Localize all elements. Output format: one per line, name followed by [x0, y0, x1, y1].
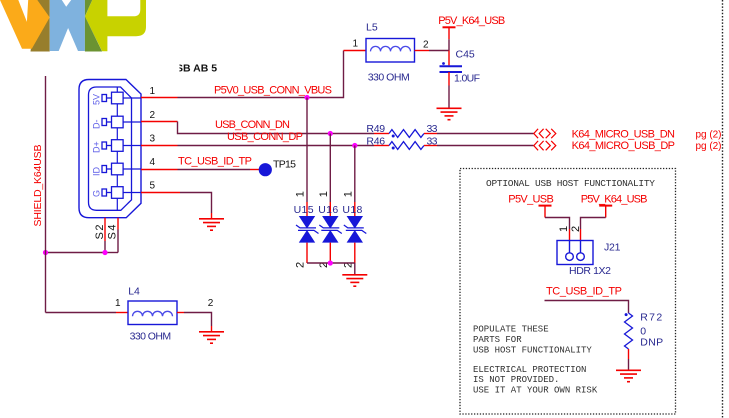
wire DP drop to U18 [354, 146, 356, 203]
header J21 [557, 241, 593, 265]
svg-text:U16: U16 [318, 204, 338, 216]
connector contact chain wire [116, 87, 118, 210]
svg-text:USE IT AT YOUR OWN RISK: USE IT AT YOUR OWN RISK [473, 386, 598, 396]
wire DN to off-page [437, 133, 534, 135]
svg-text:33: 33 [427, 136, 438, 148]
U18 pin 1 stub [354, 202, 356, 216]
capacitor C45 pin 2 [448, 72, 450, 86]
ground stub pin5 [211, 213, 213, 218]
svg-text:5V: 5V [91, 94, 101, 105]
capacitor C45 pin 1 [448, 51, 450, 66]
contact pin 3 (D+) [102, 140, 141, 152]
svg-text:TC_USB_ID_TP: TC_USB_ID_TP [178, 156, 252, 168]
ground under TVS [342, 275, 367, 286]
test point TP15 [259, 163, 272, 176]
TVS diode U16 [319, 216, 342, 243]
pin3 wire (DP pin) [141, 145, 178, 147]
svg-text:K64_MICRO_USB_DN: K64_MICRO_USB_DN [572, 128, 675, 140]
svg-text:5: 5 [150, 181, 156, 192]
wire TC_USB_ID_TP [178, 169, 251, 171]
wire shield S2/S4 to junction [46, 230, 119, 253]
svg-text:G: G [91, 190, 101, 197]
power symbol P5V_K64_USB (box) [581, 193, 648, 217]
U18 pin 2 stub [354, 243, 356, 263]
svg-text:J21: J21 [604, 242, 621, 254]
svg-text:C45: C45 [456, 49, 475, 61]
wire L5 pin2 to C45 node [429, 50, 449, 52]
svg-text:1.0UF: 1.0UF [454, 73, 480, 85]
wire VBUS [178, 51, 344, 98]
svg-text:ID: ID [91, 166, 101, 176]
junction DP [352, 143, 357, 148]
resistor R49 [374, 130, 437, 138]
wire USB_CONN_DP [178, 145, 375, 147]
resistor R46 [374, 142, 437, 150]
connector title text USB AB 5 (partially clipped) [172, 60, 217, 75]
pin4 wire (ID pin) [141, 169, 178, 171]
U16 pin 2 stub [329, 243, 331, 263]
U15 pin 1 stub [306, 202, 308, 216]
J21 pin1 stub [569, 229, 571, 241]
off-page connector DN [534, 129, 556, 138]
contact pin 4 (ID) [102, 163, 141, 175]
power symbol P5V_USB [508, 193, 554, 217]
junction TVS common [328, 260, 333, 265]
svg-text:1: 1 [318, 191, 330, 197]
wire R72 to ground [628, 359, 630, 370]
svg-text:1: 1 [150, 86, 156, 97]
svg-text:330 OHM: 330 OHM [130, 331, 172, 343]
svg-text:3: 3 [150, 134, 156, 145]
svg-text:OPTIONAL USB HOST FUNCTIONALIT: OPTIONAL USB HOST FUNCTIONALITY [486, 178, 655, 189]
optional box dotted frame [460, 169, 676, 415]
svg-text:L5: L5 [366, 22, 378, 34]
shield pin S2 [94, 218, 106, 241]
ground under pin5 [199, 219, 224, 230]
svg-text:SHIELD_K64USB: SHIELD_K64USB [32, 145, 44, 227]
wire power to node [448, 39, 450, 50]
power symbol P5V_K64_USB [438, 15, 505, 39]
svg-text:2: 2 [295, 262, 307, 268]
svg-text:2: 2 [208, 298, 214, 309]
svg-text:1: 1 [343, 191, 355, 197]
wire DN drop to U16 [329, 134, 331, 203]
USB connector J outer shell [79, 80, 141, 218]
junction shield [102, 250, 107, 255]
svg-text:PARTS FOR: PARTS FOR [473, 335, 522, 345]
svg-text:P5V_K64_USB: P5V_K64_USB [438, 15, 505, 27]
junction DN [328, 131, 333, 136]
svg-text:HDR 1X2: HDR 1X2 [569, 265, 611, 277]
svg-text:33: 33 [427, 123, 438, 135]
svg-text:R46: R46 [366, 136, 385, 148]
R72 pin 2 stub [628, 349, 630, 359]
USB connector inner shell [89, 87, 132, 210]
inductor L5 [344, 39, 430, 63]
ground under R72 [616, 370, 641, 381]
svg-text:POPULATE THESE: POPULATE THESE [473, 325, 549, 335]
svg-text:D-: D- [91, 120, 101, 130]
pin5 wire (GND pin) [141, 192, 180, 194]
svg-text:D+: D+ [91, 141, 101, 153]
wire pin5 to ground [180, 193, 212, 214]
wire L4 pin2 to ground [184, 313, 212, 327]
svg-text:P5V_K64_USB: P5V_K64_USB [581, 193, 648, 205]
svg-text:P5V_USB: P5V_USB [508, 193, 554, 205]
svg-text:1: 1 [558, 226, 570, 232]
contact pin 2 (D-) [102, 116, 141, 128]
U16 pin 1 stub [329, 202, 331, 216]
U15 pin 2 stub [306, 243, 308, 263]
svg-text:1: 1 [295, 191, 307, 197]
wire P5V_K64_USB to J21 pin2 [581, 218, 606, 230]
off-page connector DP [534, 141, 556, 150]
TVS diode U18 [344, 216, 367, 243]
svg-text:1: 1 [115, 298, 121, 309]
svg-text:330 OHM: 330 OHM [368, 72, 410, 84]
svg-text:4: 4 [150, 157, 156, 168]
svg-text:U18: U18 [342, 204, 362, 216]
sheet border dotted line [722, 0, 724, 418]
inductor L4 [116, 301, 184, 325]
svg-text:USB HOST FUNCTIONALITY: USB HOST FUNCTIONALITY [473, 346, 592, 356]
TVS diode U15 [296, 216, 319, 243]
svg-text:2: 2 [150, 110, 156, 121]
svg-text:2: 2 [570, 226, 582, 232]
J21 pin2 stub [580, 229, 582, 241]
svg-text:L4: L4 [128, 286, 140, 298]
pin2 wire (DN pin) [141, 121, 178, 123]
wire VBUS drop to U15 [306, 98, 308, 203]
svg-text:TC_USB_ID_TP: TC_USB_ID_TP [546, 285, 622, 297]
svg-text:P5V0_USB_CONN_VBUS: P5V0_USB_CONN_VBUS [214, 85, 332, 97]
wire DP to off-page [437, 145, 534, 147]
svg-text:DNP: DNP [640, 337, 663, 349]
svg-text:K64_MICRO_USB_DP: K64_MICRO_USB_DP [572, 140, 675, 152]
contact pin 5 (G) [102, 187, 141, 199]
wire shield vertical [45, 76, 47, 313]
svg-text:USB_CONN_DP: USB_CONN_DP [227, 131, 303, 143]
wire TVS common [307, 263, 355, 274]
svg-text:USB_CONN_DN: USB_CONN_DN [215, 119, 290, 131]
ground under L4 [199, 332, 224, 343]
wire shield to L4 [46, 312, 117, 314]
svg-text:U15: U15 [294, 204, 314, 216]
svg-text:pg (2): pg (2) [696, 129, 722, 140]
svg-text:1: 1 [353, 39, 359, 50]
test point pin wire [250, 169, 260, 171]
svg-text:R49: R49 [366, 123, 385, 135]
L4 ground stub [211, 326, 213, 331]
svg-text:SB AB 5: SB AB 5 [176, 63, 217, 75]
svg-text:IS NOT PROVIDED.: IS NOT PROVIDED. [473, 375, 559, 385]
contact pin 1 (5V) [102, 92, 141, 104]
wire USB_CONN_DN [178, 122, 375, 134]
NXP logo [0, 0, 146, 52]
wire TC_USB_ID_TP stub to R72 [545, 301, 629, 314]
junction VBUS [304, 95, 309, 100]
svg-text:pg (2): pg (2) [696, 141, 722, 152]
ground under C45 [437, 108, 462, 119]
capacitor C45 [440, 62, 463, 72]
pin1 wire (VBUS pin) [141, 97, 178, 99]
wire P5V_USB to J21 pin1 [545, 218, 570, 230]
svg-text:R72: R72 [640, 312, 662, 324]
resistor R72 [625, 313, 633, 349]
svg-text:2: 2 [423, 40, 429, 51]
wire C45 to ground [448, 86, 450, 108]
svg-text:ELECTRICAL PROTECTION: ELECTRICAL PROTECTION [473, 365, 586, 375]
svg-text:TP15: TP15 [273, 159, 296, 171]
shield pin S4 [107, 218, 119, 240]
junction shield left [43, 250, 48, 255]
